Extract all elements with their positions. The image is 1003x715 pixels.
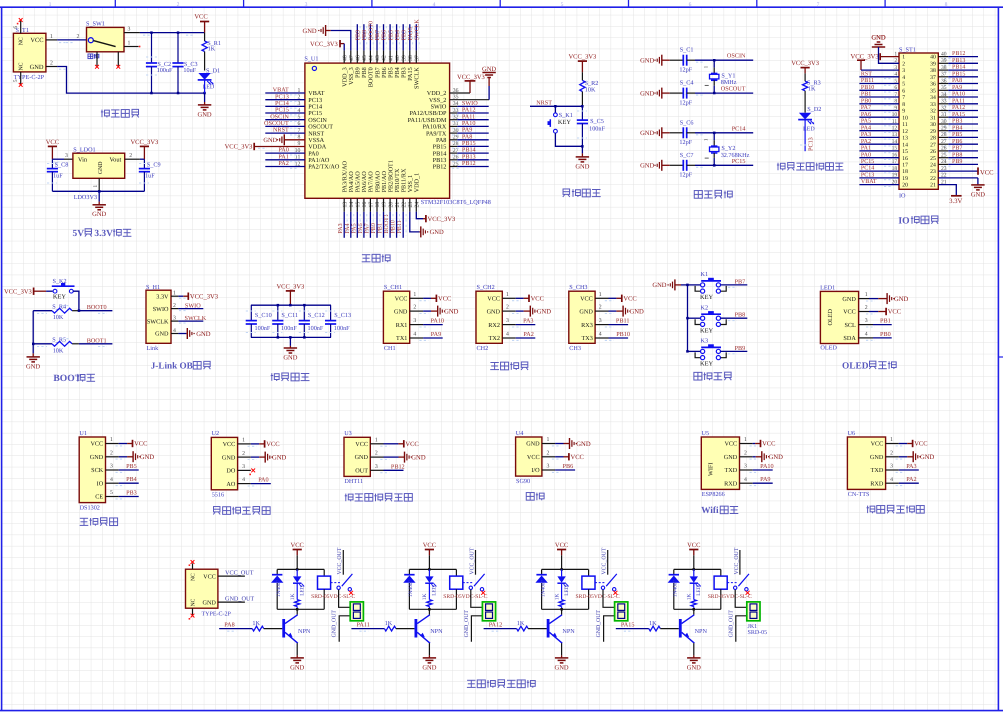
relay 1 output connector bbox=[350, 602, 363, 621]
svg-text:24: 24 bbox=[930, 163, 936, 169]
wire mcu bottom pin 15 bbox=[356, 212, 358, 238]
svg-text:19: 19 bbox=[892, 173, 898, 179]
svg-text:GND: GND bbox=[640, 163, 654, 170]
capacitor S_C6 12pF bbox=[670, 132, 684, 134]
svg-text:VCC: VCC bbox=[531, 296, 544, 303]
svg-text:26: 26 bbox=[930, 149, 936, 155]
svg-text:44: 44 bbox=[369, 55, 375, 61]
ground GND (mcu bottom) bbox=[419, 231, 420, 233]
relay 2 coil bbox=[455, 569, 457, 576]
ST1 pin 13 stub bbox=[859, 136, 899, 138]
svg-text:TX3: TX3 bbox=[581, 335, 592, 342]
svg-text:PA3: PA3 bbox=[338, 223, 344, 233]
wire PB1 (oled pin3) bbox=[859, 324, 873, 326]
svg-text:CN-TTS: CN-TTS bbox=[848, 491, 870, 498]
svg-text:S_CH3: S_CH3 bbox=[569, 284, 587, 291]
svg-text:PA0: PA0 bbox=[861, 152, 871, 158]
connector T2 TYPE-C-2P bbox=[186, 569, 218, 608]
wire Vout to VCC_3V3 bbox=[140, 158, 145, 160]
svg-text:20: 20 bbox=[892, 179, 898, 185]
wire PC14 bbox=[695, 132, 753, 134]
svg-text:7: 7 bbox=[894, 92, 897, 98]
wire mcu top pin 44 bbox=[369, 24, 371, 50]
svg-text:PB10: PB10 bbox=[391, 220, 397, 233]
svg-text:PB11: PB11 bbox=[616, 318, 630, 325]
svg-text:CE: CE bbox=[95, 494, 103, 501]
svg-text:22: 22 bbox=[930, 176, 936, 182]
label 继电器控制电路 bbox=[467, 680, 535, 688]
svg-text:12pF: 12pF bbox=[679, 66, 692, 73]
key K3 KEY bbox=[686, 350, 689, 353]
svg-text:VCC_3V3: VCC_3V3 bbox=[791, 60, 819, 67]
svg-text:1uF: 1uF bbox=[53, 173, 63, 180]
sheet right mid tick bbox=[998, 356, 1003, 358]
mcu U1 STM32F103C8T6 body bbox=[305, 63, 450, 198]
ST1 pin 30 stub bbox=[938, 123, 948, 125]
svg-text:PB11: PB11 bbox=[861, 78, 874, 84]
svg-text:S_K1: S_K1 bbox=[559, 112, 573, 119]
label 温湿度检测模块 bbox=[345, 493, 413, 501]
svg-text:10K: 10K bbox=[53, 314, 64, 321]
svg-text:4: 4 bbox=[413, 332, 416, 338]
svg-text:1: 1 bbox=[413, 292, 416, 298]
module U5 ESP8266 body bbox=[701, 437, 739, 489]
mcu pin 16 bottom stub bbox=[363, 198, 365, 212]
wire mcu bottom pin 14 bbox=[350, 212, 352, 238]
svg-text:VCC: VCC bbox=[395, 296, 408, 303]
svg-text:K3: K3 bbox=[701, 338, 709, 345]
ground GND (CH1 pin2) bbox=[410, 310, 423, 312]
svg-text:4: 4 bbox=[506, 332, 509, 338]
svg-text:RST: RST bbox=[861, 71, 872, 77]
svg-text:VCC_3V3: VCC_3V3 bbox=[428, 216, 456, 223]
svg-text:GND: GND bbox=[576, 441, 591, 448]
mcu pin 31 stub bbox=[450, 125, 458, 127]
relay 4 coil bbox=[720, 569, 722, 576]
wire PA3 (U6 pin3) bbox=[886, 469, 899, 471]
svg-text:4: 4 bbox=[110, 477, 113, 483]
svg-text:PB8: PB8 bbox=[735, 312, 746, 319]
svg-text:3: 3 bbox=[128, 27, 131, 33]
wire PA3 (CH2 pin3) bbox=[502, 324, 515, 326]
wire T1.VCC to SW1 pin2 bbox=[57, 39, 86, 41]
power port VCC (relay 2) bbox=[423, 542, 436, 555]
svg-text:LED1: LED1 bbox=[820, 284, 835, 291]
svg-text:PB4: PB4 bbox=[126, 476, 137, 483]
svg-text:PA5: PA5 bbox=[351, 223, 357, 233]
svg-text:8MHz: 8MHz bbox=[721, 79, 737, 86]
svg-text:GND: GND bbox=[222, 454, 236, 461]
svg-text:14: 14 bbox=[902, 142, 908, 148]
svg-text:2: 2 bbox=[744, 450, 747, 456]
label 电源电路 bbox=[101, 109, 139, 117]
svg-text:23: 23 bbox=[941, 166, 947, 172]
wire mcu top pin 38 bbox=[409, 24, 411, 50]
svg-text:VCC: VCC bbox=[266, 441, 279, 448]
svg-text:7: 7 bbox=[817, 2, 820, 8]
svg-text:PA9: PA9 bbox=[431, 331, 441, 338]
svg-text:PC15: PC15 bbox=[861, 159, 874, 165]
capacitor S_C13 100nF bbox=[325, 305, 336, 337]
svg-text:GND: GND bbox=[92, 211, 106, 218]
svg-text:GND: GND bbox=[842, 296, 856, 303]
wire SWIO (jlink) bbox=[178, 308, 203, 310]
relay 2 bottom rail bbox=[409, 608, 456, 610]
svg-text:15: 15 bbox=[902, 149, 908, 155]
svg-text:11: 11 bbox=[902, 122, 908, 128]
svg-text:PA3: PA3 bbox=[906, 463, 916, 470]
svg-text:I/O: I/O bbox=[531, 467, 540, 474]
svg-text:ESP8266: ESP8266 bbox=[702, 491, 725, 498]
relay 1 bottom rail bbox=[277, 608, 324, 610]
wire relay 1 common to connector bbox=[339, 590, 352, 608]
svg-text:PB5: PB5 bbox=[126, 463, 137, 470]
svg-text:4: 4 bbox=[902, 75, 905, 81]
wire relay 3 common to connector bbox=[603, 590, 616, 608]
svg-text:8: 8 bbox=[945, 2, 948, 8]
svg-text:VCC_3V3: VCC_3V3 bbox=[457, 74, 485, 81]
svg-text:2: 2 bbox=[129, 153, 132, 159]
label 按键电路 bbox=[694, 372, 731, 380]
svg-text:1K: 1K bbox=[808, 85, 816, 92]
svg-text:GND: GND bbox=[870, 454, 884, 461]
transistor NPN (relay 3) bbox=[561, 609, 563, 615]
svg-text:20: 20 bbox=[902, 183, 908, 189]
capacitor S_C9 1uF bbox=[139, 159, 150, 191]
svg-text:PA4: PA4 bbox=[861, 125, 871, 131]
svg-text:NC: NC bbox=[190, 573, 196, 581]
svg-text:BOOT1: BOOT1 bbox=[87, 337, 107, 344]
svg-text:39: 39 bbox=[941, 58, 947, 64]
svg-text:42: 42 bbox=[382, 55, 388, 61]
svg-text:3: 3 bbox=[865, 318, 868, 324]
svg-text:1K: 1K bbox=[208, 46, 216, 53]
svg-text:PB0: PB0 bbox=[861, 98, 871, 104]
svg-text:CH3: CH3 bbox=[569, 345, 581, 352]
svg-text:PB9: PB9 bbox=[735, 345, 746, 352]
svg-text:38: 38 bbox=[930, 68, 936, 74]
svg-text:28: 28 bbox=[930, 136, 936, 142]
ST1 pin 37 stub bbox=[938, 76, 948, 78]
T2 top pin (nc) bbox=[192, 563, 194, 569]
svg-text:RX3: RX3 bbox=[581, 322, 593, 329]
junction dots top rail bbox=[150, 31, 153, 34]
svg-text:PA6: PA6 bbox=[861, 112, 871, 118]
switch label 开关 bbox=[88, 54, 99, 59]
svg-text:19: 19 bbox=[382, 202, 388, 208]
wire PA10 (CH1 pin3) bbox=[410, 324, 423, 326]
switch S_SW1 bbox=[87, 27, 125, 51]
svg-text:SWCLK: SWCLK bbox=[185, 315, 207, 322]
svg-text:GND: GND bbox=[769, 454, 784, 461]
wire pin24 VDD_1 to VCC_3V3 bbox=[416, 212, 423, 219]
wire VCC to LDO Vin bbox=[52, 158, 64, 160]
svg-text:PB3: PB3 bbox=[126, 490, 137, 497]
ST1 pin 32 stub bbox=[938, 110, 948, 112]
LDO pin 2 stub bbox=[125, 158, 140, 160]
svg-text:1: 1 bbox=[890, 437, 893, 443]
svg-text:17: 17 bbox=[369, 202, 375, 208]
ST1 pin 39 stub bbox=[938, 62, 948, 64]
svg-text:39: 39 bbox=[930, 61, 936, 67]
wire PA10 (U5 pin3) bbox=[740, 469, 753, 471]
svg-text:17: 17 bbox=[892, 159, 898, 165]
svg-text:10uF: 10uF bbox=[183, 67, 196, 74]
svg-text:WIFI: WIFI bbox=[708, 463, 715, 476]
svg-text:100uF: 100uF bbox=[157, 67, 173, 74]
svg-text:GND: GND bbox=[30, 64, 44, 71]
svg-text:PB12: PB12 bbox=[462, 160, 476, 167]
mcu pin 34 stub bbox=[450, 105, 458, 107]
svg-text:OSCOUT: OSCOUT bbox=[721, 86, 746, 93]
power port VCC (U2 pin1) bbox=[238, 443, 251, 445]
svg-text:VCC: VCC bbox=[487, 296, 500, 303]
mcu pin 23 bottom stub bbox=[409, 198, 411, 212]
relay 1 switch bbox=[331, 582, 342, 584]
wire mcu bottom pin 20 bbox=[389, 212, 391, 238]
mcu pin 39 top stub bbox=[402, 50, 404, 63]
svg-text:25: 25 bbox=[930, 156, 936, 162]
wire PB11 (CH3 pin3) bbox=[595, 324, 608, 326]
connector S_ST1 body bbox=[899, 53, 938, 189]
svg-text:U4: U4 bbox=[516, 430, 524, 437]
svg-text:VCC: VCC bbox=[203, 573, 216, 580]
svg-text:SCL: SCL bbox=[844, 322, 856, 329]
svg-text:PB12: PB12 bbox=[391, 463, 405, 470]
relay 1 top rail bbox=[277, 568, 324, 570]
power port VCC (U5 pin1) bbox=[740, 443, 753, 445]
svg-text:VCC: VCC bbox=[423, 542, 436, 549]
svg-text:3: 3 bbox=[546, 464, 549, 470]
wire GND_OUT (T2) bbox=[218, 601, 245, 603]
svg-text:27: 27 bbox=[930, 142, 936, 148]
svg-text:DHT11: DHT11 bbox=[344, 478, 363, 485]
mcu pin 17 bottom stub bbox=[369, 198, 371, 212]
svg-text:LED: LED bbox=[564, 585, 570, 596]
svg-text:3: 3 bbox=[744, 464, 747, 470]
mcu pin 42 top stub bbox=[383, 50, 385, 63]
svg-text:8: 8 bbox=[902, 102, 905, 108]
svg-text:GND: GND bbox=[640, 58, 654, 65]
svg-text:39: 39 bbox=[401, 55, 407, 61]
svg-text:5: 5 bbox=[894, 78, 897, 84]
ground GND (relay 2) bbox=[428, 655, 430, 658]
svg-text:12pF: 12pF bbox=[679, 99, 692, 106]
svg-text:U3: U3 bbox=[344, 430, 352, 437]
svg-text:Wifi: Wifi bbox=[701, 506, 719, 516]
sheet zone ticks and numbers bbox=[114, 0, 116, 7]
svg-text:37: 37 bbox=[941, 72, 947, 78]
wire PA11 to base resistor (relay 2) bbox=[351, 628, 384, 630]
resistor 1K vertical (relay 2) bbox=[427, 600, 432, 607]
display LED1 OLED body bbox=[820, 291, 858, 343]
svg-text:18: 18 bbox=[375, 202, 381, 208]
svg-text:4: 4 bbox=[173, 328, 176, 334]
svg-text:34: 34 bbox=[930, 95, 936, 101]
mcu pin 14 bottom stub bbox=[350, 198, 352, 212]
svg-text:NPN: NPN bbox=[298, 628, 311, 635]
ST1 pin 12 stub bbox=[859, 130, 899, 132]
ground GND (reset) bbox=[581, 146, 583, 153]
mcu pin 47 top stub bbox=[350, 50, 352, 63]
mcu pin 29 stub bbox=[450, 139, 458, 141]
svg-text:GND: GND bbox=[487, 308, 501, 315]
mcu pin 35 VSS_2 stub bbox=[450, 99, 490, 101]
svg-text:GND: GND bbox=[90, 454, 104, 461]
LED (relay 4) bbox=[693, 569, 695, 576]
mcu pin 20 bottom stub bbox=[389, 198, 391, 212]
svg-text:TXD: TXD bbox=[724, 467, 737, 474]
svg-text:VDD_1: VDD_1 bbox=[414, 173, 421, 193]
svg-text:10: 10 bbox=[892, 112, 898, 118]
svg-text:PA3: PA3 bbox=[523, 318, 533, 325]
ST1 pin 11 stub bbox=[859, 123, 899, 125]
svg-text:GND: GND bbox=[411, 454, 426, 461]
label 时钟模块 bbox=[80, 518, 118, 526]
svg-text:2: 2 bbox=[50, 61, 53, 67]
svg-text:LED: LED bbox=[432, 585, 438, 596]
svg-text:PA8: PA8 bbox=[224, 621, 234, 628]
LED (relay 3) bbox=[561, 569, 563, 576]
relay 2 switch bbox=[463, 582, 474, 584]
connector S_H1 body bbox=[146, 290, 171, 343]
svg-text:1K: 1K bbox=[252, 620, 260, 627]
mcu pin 37 top stub bbox=[415, 50, 417, 63]
mcu pin 22 bottom stub bbox=[402, 198, 404, 212]
power port VCC_3V3 (boot) bbox=[4, 288, 46, 296]
svg-text:10K: 10K bbox=[53, 347, 64, 354]
mcu pin 5 stub bbox=[265, 119, 305, 121]
svg-text:PA15: PA15 bbox=[621, 621, 635, 628]
wire BOOT0 bbox=[79, 310, 113, 312]
svg-text:TX1: TX1 bbox=[396, 335, 407, 342]
svg-text:VCC: VCC bbox=[527, 454, 540, 461]
svg-text:PA8: PA8 bbox=[952, 78, 962, 84]
svg-text:2: 2 bbox=[546, 450, 549, 456]
svg-text:S_C13: S_C13 bbox=[334, 312, 351, 319]
svg-text:38: 38 bbox=[408, 55, 414, 61]
svg-text:GND: GND bbox=[555, 664, 569, 671]
module U3 DHT11 body bbox=[344, 437, 370, 476]
svg-text:PA0: PA0 bbox=[258, 477, 268, 484]
svg-text:S_C9: S_C9 bbox=[147, 161, 161, 168]
svg-text:2: 2 bbox=[902, 61, 905, 67]
relay 3 switch bbox=[595, 582, 606, 584]
ST1 pin 19 stub bbox=[859, 177, 899, 179]
resistor S_R2 10K bbox=[581, 72, 583, 80]
module U4 SG90 body bbox=[516, 437, 542, 476]
svg-text:PA9: PA9 bbox=[952, 85, 962, 91]
mcu pin 1 stub bbox=[265, 92, 305, 94]
svg-text:VCC: VCC bbox=[914, 441, 927, 448]
svg-text:VCC_OUT: VCC_OUT bbox=[225, 570, 254, 577]
svg-text:1K: 1K bbox=[687, 594, 693, 601]
svg-text:S_SW1: S_SW1 bbox=[86, 21, 105, 28]
svg-text:SRD-05: SRD-05 bbox=[748, 630, 768, 636]
svg-text:PB1: PB1 bbox=[880, 318, 891, 325]
wire mcu top pin 40 bbox=[396, 24, 398, 50]
svg-text:SWIO: SWIO bbox=[153, 306, 169, 313]
mcu pin 4 stub bbox=[265, 112, 305, 114]
svg-text:S_LDO1: S_LDO1 bbox=[73, 147, 95, 154]
ground GND (ldo) bbox=[98, 191, 100, 201]
svg-text:36: 36 bbox=[941, 78, 947, 84]
ST1 pin 16 stub bbox=[859, 157, 899, 159]
svg-text:100nF: 100nF bbox=[308, 325, 324, 332]
mcu pin 44 top stub bbox=[369, 50, 371, 63]
T1 pin 6 (top, no connect) bbox=[20, 21, 22, 34]
svg-text:U5: U5 bbox=[702, 430, 710, 437]
svg-text:GND: GND bbox=[290, 664, 304, 671]
transistor NPN (relay 2) bbox=[428, 609, 430, 615]
wire PB10 (CH3 pin4) bbox=[595, 337, 608, 339]
mcu pin 18 bottom stub bbox=[376, 198, 378, 212]
U2 pin3 no connect bbox=[238, 469, 251, 471]
svg-text:25: 25 bbox=[941, 153, 947, 159]
relay 2 top rail bbox=[409, 568, 456, 570]
svg-text:GND: GND bbox=[894, 296, 909, 303]
power port VCC (ldo) bbox=[46, 139, 59, 159]
LDO pin 1 GND stub bbox=[98, 178, 100, 191]
svg-text:1: 1 bbox=[242, 438, 245, 444]
ST1 pin 8 stub bbox=[859, 103, 899, 105]
svg-text:1N4007: 1N4007 bbox=[673, 580, 679, 598]
wire NRST bbox=[530, 105, 582, 107]
svg-text:27: 27 bbox=[941, 139, 947, 145]
wire PA2 (CH2 pin4) bbox=[502, 337, 515, 339]
svg-text:48: 48 bbox=[342, 55, 348, 61]
svg-text:KEY: KEY bbox=[558, 119, 572, 126]
svg-text:PC14: PC14 bbox=[861, 166, 874, 172]
svg-text:VCC: VCC bbox=[355, 441, 368, 448]
svg-text:2: 2 bbox=[110, 450, 113, 456]
svg-text:VCC_OUT: VCC_OUT bbox=[734, 547, 740, 574]
svg-text:PB11: PB11 bbox=[397, 220, 403, 233]
wire mcu top pin 41 bbox=[389, 24, 391, 50]
resistor 1K base (relay 4) bbox=[649, 626, 661, 631]
wire PB8 (key K2) bbox=[721, 317, 748, 319]
ST1 pin 14 stub bbox=[859, 143, 899, 145]
power port VCC_3V3 (filter) bbox=[276, 283, 304, 305]
svg-text:NC: NC bbox=[190, 598, 196, 606]
svg-text:RX2: RX2 bbox=[488, 322, 500, 329]
svg-text:40: 40 bbox=[941, 51, 947, 57]
svg-text:PB0: PB0 bbox=[880, 331, 891, 338]
svg-text:U6: U6 bbox=[848, 430, 856, 437]
label 滤波电路 bbox=[271, 373, 310, 381]
ground GND (relay 3) bbox=[561, 655, 563, 658]
svg-text:PB15: PB15 bbox=[952, 71, 965, 77]
svg-text:GND: GND bbox=[640, 90, 654, 97]
junction dot BOOT0 bbox=[78, 309, 81, 312]
svg-text:32: 32 bbox=[941, 105, 947, 111]
relay 4 output connector bbox=[747, 602, 760, 621]
svg-text:NRST: NRST bbox=[536, 100, 552, 107]
power port VCC_3V3 (jlink pin1) bbox=[178, 295, 183, 297]
svg-text:OUT: OUT bbox=[355, 468, 368, 475]
wire relay 4 common to connector bbox=[735, 590, 748, 608]
wire boot trunk bbox=[32, 311, 34, 344]
mcu pin 25 stub bbox=[450, 166, 458, 168]
power port VCC_3V3 branch (ST1 pin3) bbox=[857, 59, 865, 61]
svg-text:26: 26 bbox=[941, 146, 947, 152]
relay 3 output connector bbox=[615, 602, 628, 621]
svg-text:VCC: VCC bbox=[134, 441, 147, 448]
svg-text:BOOT0: BOOT0 bbox=[87, 304, 107, 311]
wire OSCIN bbox=[695, 59, 753, 61]
mcu pin 21 bottom stub bbox=[396, 198, 398, 212]
svg-text:GND_OUT: GND_OUT bbox=[225, 596, 254, 603]
